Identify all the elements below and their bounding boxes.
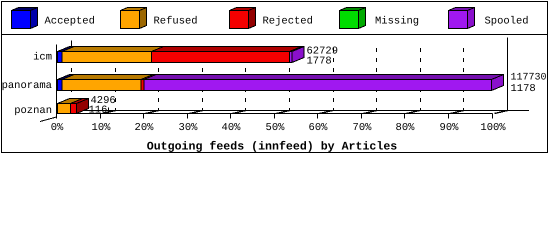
legend cube purple top face <box>449 8 475 11</box>
legend cube orange side face <box>140 8 147 29</box>
legend cube red front face <box>230 11 249 29</box>
legend cube purple side face <box>468 8 475 29</box>
svg-text:icm: icm <box>33 52 52 64</box>
legend cube red top face <box>230 8 256 11</box>
svg-text:panorama: panorama <box>2 80 52 92</box>
svg-text:117730: 117730 <box>511 73 547 84</box>
svg-text:116: 116 <box>89 105 108 117</box>
legend cube red side face <box>249 8 256 29</box>
front x-axis line <box>57 113 493 115</box>
back x-axis line <box>57 110 530 112</box>
legend separator line <box>2 34 548 36</box>
legend cube green front face <box>340 11 359 29</box>
svg-text:Outgoing feeds (innfeed) by Ar: Outgoing feeds (innfeed) by Articles <box>147 141 398 154</box>
dashed gridlines 0%..90% (back plane) <box>71 48 73 110</box>
svg-text:1778: 1778 <box>307 56 332 68</box>
legend cube green top face <box>340 8 366 11</box>
legend cube blue side face <box>31 8 38 29</box>
svg-text:0%: 0% <box>51 122 64 134</box>
legend cube orange front face <box>121 11 140 29</box>
bar panorama <box>58 75 75 80</box>
3d diagonal connectors back axis to front ticks <box>103 111 116 114</box>
svg-text:20%: 20% <box>135 122 155 134</box>
solid 100% gridline / right wall of plot box <box>507 38 509 111</box>
svg-text:poznan: poznan <box>14 105 52 117</box>
x-axis ticks and percent labels <box>56 114 58 119</box>
legend cube blue front face <box>12 11 31 29</box>
y-axis line <box>56 45 58 119</box>
svg-text:Accepted: Accepted <box>45 16 95 28</box>
svg-text:80%: 80% <box>396 122 416 134</box>
legend cube purple front face <box>449 11 468 29</box>
back y-axis stub above icm bar <box>71 41 73 47</box>
svg-text:1178: 1178 <box>511 83 536 95</box>
svg-text:Rejected: Rejected <box>263 16 313 28</box>
svg-text:100%: 100% <box>480 122 506 134</box>
svg-text:Refused: Refused <box>154 16 198 28</box>
legend cube green side face <box>359 8 366 29</box>
legend cube orange top face <box>121 8 147 11</box>
svg-text:60%: 60% <box>309 122 329 134</box>
svg-text:Spooled: Spooled <box>485 16 529 28</box>
legend cube blue top face <box>12 8 38 11</box>
svg-text:Missing: Missing <box>375 16 419 28</box>
svg-text:10%: 10% <box>92 122 112 134</box>
svg-text:40%: 40% <box>222 122 242 134</box>
tick after 116 <box>108 108 110 113</box>
svg-text:50%: 50% <box>266 122 286 134</box>
svg-text:30%: 30% <box>179 122 199 134</box>
outer border <box>2 2 548 153</box>
svg-text:90%: 90% <box>440 122 460 134</box>
bar poznan <box>58 99 83 104</box>
svg-text:70%: 70% <box>353 122 373 134</box>
bottom-left 3d diagonal at origin <box>40 117 57 122</box>
bar icm <box>58 47 75 52</box>
